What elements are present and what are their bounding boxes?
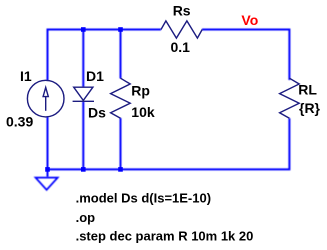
wire diode branch top	[82, 30, 84, 88]
svg-text:Ds: Ds	[88, 105, 106, 121]
node junction top diode	[81, 27, 86, 32]
svg-text:0.1: 0.1	[171, 39, 191, 55]
resistor Rp	[111, 78, 131, 118]
svg-text:10k: 10k	[131, 104, 155, 120]
wire top rail right segment	[202, 30, 289, 81]
wire ground stub	[47, 169, 49, 177]
resistor Rs	[161, 21, 202, 38]
node junction top Rp	[118, 27, 123, 32]
wire top rail left segment	[48, 30, 162, 81]
node junction bottom Rp	[118, 167, 123, 172]
svg-text:0.39: 0.39	[6, 113, 33, 129]
ground	[36, 178, 58, 190]
svg-text:Rs: Rs	[173, 3, 191, 19]
svg-text:.step dec param R 10m 1k 20: .step dec param R 10m 1k 20	[76, 229, 254, 244]
svg-text:Vo: Vo	[241, 12, 258, 28]
svg-text:.model Ds d(Is=1E-10): .model Ds d(Is=1E-10)	[76, 191, 211, 206]
svg-text:RL: RL	[298, 81, 317, 97]
wire Rp branch bottom	[120, 118, 122, 169]
current source I1	[27, 80, 64, 117]
node junction bottom diode	[81, 167, 86, 172]
wire diode branch bottom	[82, 102, 84, 170]
resistor RL	[280, 78, 300, 118]
svg-text:{R}: {R}	[299, 100, 321, 116]
svg-text:Rp: Rp	[131, 83, 150, 99]
wire Rp branch top	[120, 30, 122, 79]
wire bottom rail	[48, 117, 290, 170]
svg-text:D1: D1	[86, 68, 104, 84]
svg-text:I1: I1	[20, 68, 32, 84]
node junction bottom ground	[45, 167, 50, 172]
diode D1	[73, 87, 94, 101]
svg-text:.op: .op	[76, 210, 96, 225]
